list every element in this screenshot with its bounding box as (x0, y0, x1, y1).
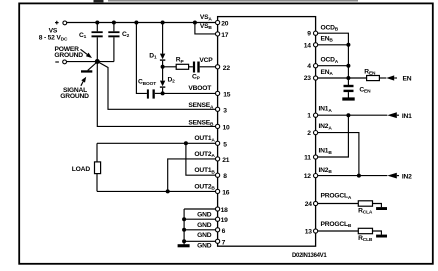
node IN2 junction (357, 174, 361, 178)
pin 7 (216, 239, 226, 246)
wire OCD_B (318, 33, 349, 45)
svg-text:LOAD: LOAD (72, 166, 91, 173)
wire GND pin6 (184, 229, 215, 231)
node D1 top (161, 21, 165, 25)
signal ground symbol (81, 63, 97, 73)
pin 5 (216, 141, 228, 148)
svg-text:12: 12 (304, 173, 312, 180)
wire GND pin19 (184, 218, 215, 220)
wire EN_B (318, 44, 349, 46)
pin 9 (307, 31, 317, 38)
node OUT2 junction (166, 189, 170, 193)
pin 24 (305, 201, 318, 208)
svg-text:2: 2 (307, 130, 311, 137)
svg-text:20: 20 (221, 21, 229, 28)
node GND 7 (182, 239, 186, 243)
svg-text:8: 8 (223, 173, 227, 180)
wire IN1_B (318, 115, 349, 157)
wire minus to ground node (67, 61, 114, 63)
wire GND pin7 (184, 240, 215, 242)
node OCD_A junction (346, 64, 350, 68)
wire VS_B branch (195, 23, 216, 34)
svg-text:17: 17 (221, 32, 229, 39)
svg-text:14: 14 (304, 42, 312, 49)
diode D1 (149, 52, 165, 67)
pin 12 (304, 173, 318, 180)
svg-text:5: 5 (223, 141, 227, 148)
svg-text:GND: GND (197, 211, 212, 218)
label POWER GROUND (54, 46, 92, 59)
pin 22 (216, 65, 231, 72)
pin 3 (216, 107, 228, 114)
IC U1 body (218, 17, 316, 247)
wire CBOOT branch (136, 23, 147, 94)
svg-text:24: 24 (305, 201, 313, 208)
capacitor C_EN (344, 85, 372, 98)
ground bar GND pins (178, 244, 190, 247)
pin 2 (307, 130, 317, 137)
svg-text:1: 1 (307, 113, 311, 120)
wire GND pin18 (184, 208, 215, 210)
wire OUT1_A (97, 142, 216, 144)
wire SENSE_B from ground node (97, 62, 215, 127)
wire GND bus (183, 209, 185, 244)
svg-text:9: 9 (307, 31, 311, 38)
node GND 6 (182, 228, 186, 232)
resistor R_EN (364, 68, 386, 80)
node VS_B branch (193, 21, 197, 25)
wire EN_A (318, 77, 367, 79)
wire OUT1_B (186, 143, 216, 175)
svg-text:VBOOT: VBOOT (188, 85, 212, 92)
svg-text:GROUND: GROUND (54, 52, 83, 59)
svg-text:GND: GND (197, 232, 212, 239)
svg-text:21: 21 (222, 157, 230, 164)
node C2 top (112, 21, 116, 25)
svg-text:IN1: IN1 (402, 113, 412, 120)
node IN1 junction (346, 113, 350, 117)
input arrow IN1 (387, 112, 412, 120)
pin 20 (216, 20, 229, 27)
capacitor C1 (79, 23, 103, 62)
svg-text:16: 16 (222, 189, 230, 196)
node C1 top (95, 21, 99, 25)
terminal - (55, 60, 66, 64)
resistor R_CLA (358, 201, 381, 216)
wire PROGCL_B (318, 230, 359, 232)
node CBOOT top (134, 21, 138, 25)
capacitor CBOOT (138, 79, 163, 99)
node EN_A junction (346, 76, 350, 80)
node OUT1 junction (184, 141, 188, 145)
svg-text:D02IN1364V1: D02IN1364V1 (292, 253, 327, 259)
terminal + (55, 21, 67, 25)
node EN_B junction (346, 43, 350, 47)
node D1-D2-Rp junction (161, 65, 165, 69)
svg-text:GND: GND (197, 222, 212, 229)
pin 8 (216, 173, 228, 180)
svg-text:19: 19 (221, 217, 229, 224)
svg-text:13: 13 (305, 229, 313, 236)
svg-text:6: 6 (222, 228, 226, 235)
pin 17 (216, 32, 229, 39)
wire SENSE_A from ground node (97, 62, 215, 110)
wire OUT2_B (97, 190, 216, 192)
svg-text:15: 15 (223, 91, 231, 98)
svg-text:EN: EN (403, 75, 412, 82)
pin 6 (216, 228, 226, 235)
svg-text:22: 22 (223, 65, 231, 72)
svg-text:IN2: IN2 (402, 174, 412, 181)
svg-text:GROUND: GROUND (60, 93, 89, 100)
svg-text:11: 11 (304, 155, 311, 162)
pin 18 (216, 207, 229, 214)
ground bar R_CLB (376, 235, 387, 238)
wire D1 branch (162, 23, 164, 54)
node GND 19 (182, 217, 186, 221)
input arrow EN (386, 75, 411, 82)
svg-text:3: 3 (223, 107, 227, 114)
pin 4 (307, 63, 317, 70)
resistor R_CLB (358, 228, 381, 243)
resistor LOAD (72, 143, 101, 191)
pin 14 (304, 42, 318, 49)
node power ground (95, 59, 100, 64)
pin 11 (304, 155, 318, 162)
pin 23 (304, 75, 318, 82)
resistor Rp (163, 57, 193, 70)
ground bar R_CLA (376, 207, 387, 210)
label SIGNAL GROUND (60, 77, 89, 100)
pin 13 (305, 229, 318, 236)
wire OUT2_A (168, 159, 216, 192)
svg-text:10: 10 (223, 124, 231, 131)
pin 10 (216, 124, 231, 131)
wire OCD_A (318, 65, 349, 67)
wire EN bus (347, 45, 349, 85)
node D2-CBOOT-VBOOT junction (161, 91, 165, 95)
pin 15 (216, 91, 231, 98)
capacitor C2 (108, 23, 129, 62)
svg-text:7: 7 (222, 239, 226, 246)
wire VBOOT (163, 92, 216, 94)
svg-text:GND: GND (197, 243, 212, 250)
svg-text:18: 18 (221, 207, 229, 214)
wire PROGCL_A (318, 203, 359, 205)
diode D2 (160, 67, 175, 94)
input arrow IN2 (387, 173, 412, 181)
pin 19 (216, 217, 229, 224)
svg-text:4: 4 (307, 63, 311, 70)
pin 21 (216, 157, 230, 164)
pin 1 (307, 113, 317, 120)
wire IN1_A (318, 114, 388, 116)
pin 16 (216, 189, 230, 196)
wire VS rail (67, 22, 216, 24)
wire IN2_B (318, 175, 388, 177)
capacitor Cp (192, 62, 216, 82)
wire IN2_A (318, 133, 359, 176)
svg-text:23: 23 (304, 75, 312, 82)
ground bar C_EN (342, 97, 354, 100)
label VS supply (39, 28, 68, 43)
svg-text:VCP: VCP (199, 57, 213, 64)
